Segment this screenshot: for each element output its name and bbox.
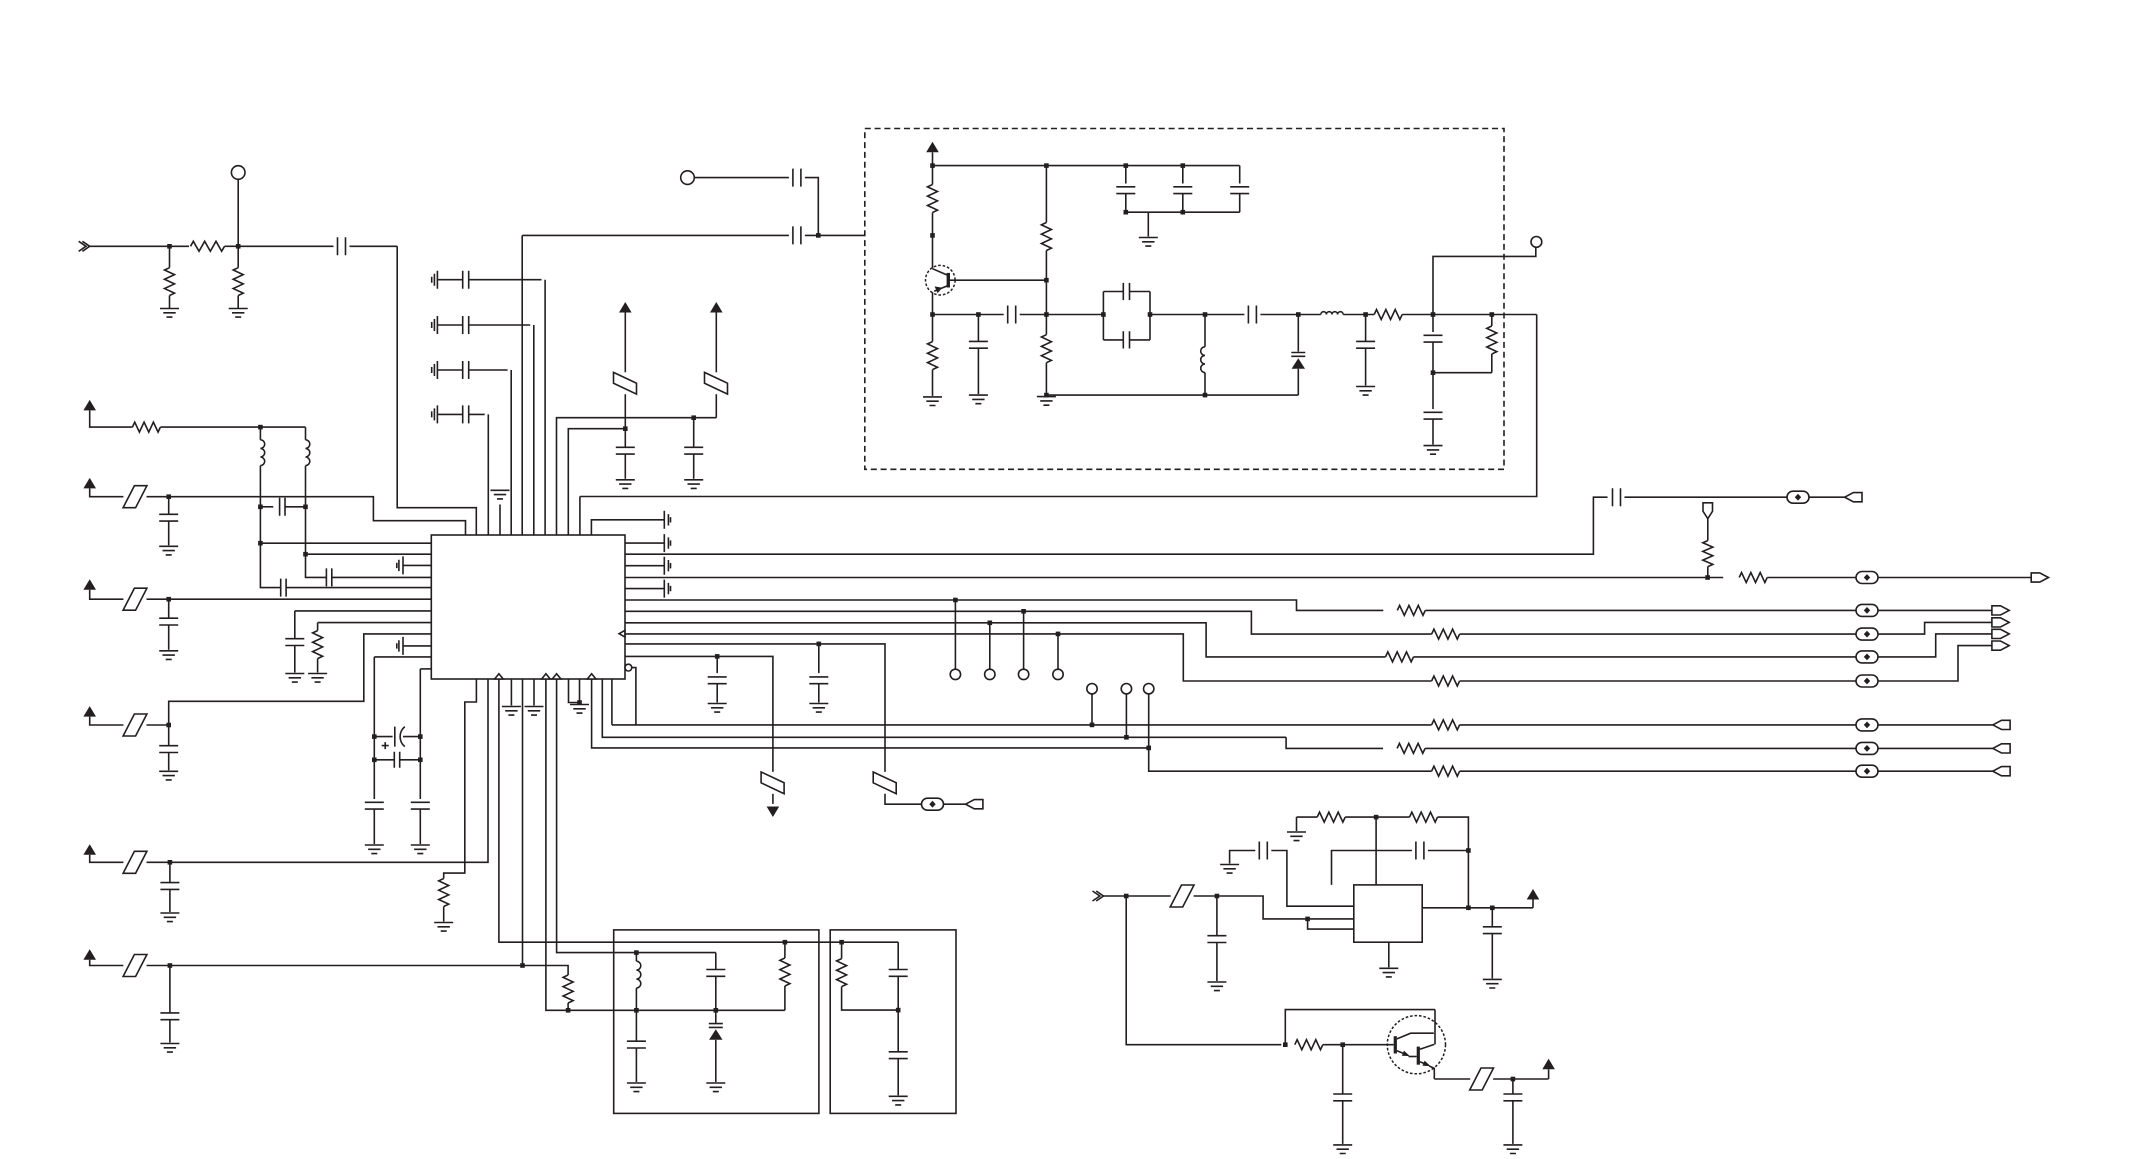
wire [612,724,1432,726]
wire [397,246,476,535]
junction [566,1008,571,1013]
capacitor C29 [1613,488,1621,506]
wire [169,296,171,309]
wire [1467,851,1469,908]
wire [611,679,613,725]
capacitor C18 [397,556,403,574]
junction [634,950,639,955]
wire [90,855,124,863]
inductor L2 [306,440,310,466]
wire [373,737,375,760]
wire [1297,369,1299,395]
resistor R3 [233,268,243,296]
wire [1434,1078,1470,1080]
wire [533,325,535,535]
capacitor C28 [664,580,670,598]
junction [1181,163,1186,168]
wire [90,590,124,599]
wire [373,760,375,799]
wire [632,668,636,725]
junction [1215,894,1220,899]
wire [1239,194,1241,213]
wire [1625,496,1788,498]
ground [627,1083,646,1092]
wire [90,245,170,247]
junction [1340,1042,1345,1047]
junction [988,621,993,626]
wire [1148,694,1150,748]
filter FL6 [123,851,147,873]
capacitor C36 [1230,187,1249,194]
wire [715,953,717,970]
wire [1428,850,1469,852]
resistor R7 [313,631,323,659]
capacitor C21 [374,727,420,750]
testpoint TP3 [950,669,960,679]
diode D2 [709,1024,723,1040]
wire [546,679,785,1010]
wire [694,177,789,179]
wire [1342,1045,1344,1094]
wire [419,809,421,844]
wire [602,679,1286,737]
pin-marker [495,674,504,679]
junction [1705,575,1710,580]
wire [147,598,169,600]
wire [419,669,421,737]
junction [258,505,263,510]
capacitor C2 [793,169,801,187]
ferrite-bead FB8 [1856,719,1878,731]
capacitor C41 [627,1041,646,1048]
resistor R9 [1703,541,1713,567]
junction [1283,1042,1288,1047]
wire [1182,194,1184,213]
resistor R21 [1374,310,1402,320]
resistor R11 [1432,629,1460,639]
wire [260,542,431,544]
ground [1483,979,1502,988]
junction [1124,210,1129,215]
junction [372,758,377,763]
wire [932,152,934,165]
ground [1379,968,1398,977]
wire [693,418,695,448]
junction [783,940,788,945]
wire [90,960,124,966]
wire [1147,212,1149,236]
wire [544,280,546,535]
ferrite-bead FB5 [1856,651,1878,663]
wire [569,679,580,703]
wire [932,370,934,396]
wire [1125,694,1127,737]
wire [168,599,170,618]
wire [90,488,124,496]
wire [1023,611,1025,669]
module X3 [830,930,956,1114]
filter FL8 [873,772,896,794]
testpoint TP2 [681,171,695,185]
wire [932,213,934,236]
wire [285,506,306,508]
wire [499,505,501,536]
resistor R12 [1386,652,1414,662]
connector CN9 [1993,744,2010,753]
wire [1126,895,1171,897]
ground [160,913,179,922]
wire [1125,166,1127,184]
wire [624,394,626,429]
junction [1203,393,1208,398]
wire [1091,694,1093,725]
wire [933,165,1240,167]
wire [715,394,717,418]
power VEE [767,807,780,818]
capacitor C14 [159,618,178,625]
junction [166,494,171,499]
wire [693,454,695,479]
wire [772,794,774,804]
ground [809,704,828,713]
wire [1365,348,1367,385]
wire [625,542,664,544]
junction [816,233,821,238]
capacitor C48 [1483,927,1502,934]
wire [933,314,1004,316]
wire [238,245,333,247]
ferrite-bead FB3 [1856,604,1878,616]
wire [169,246,171,267]
wire [1878,577,2031,579]
wire [1296,817,1298,831]
wire [1878,770,1993,772]
wire [90,410,133,427]
capacitor C32 [1008,306,1016,324]
testpoint TP1 [231,166,245,180]
wire [1125,194,1127,213]
connector J1 [79,241,90,251]
resistor R20 [1041,335,1051,363]
wire [1239,166,1241,184]
filter FL10 [1170,885,1194,907]
wire [169,1020,171,1043]
capacitor C30 [809,677,828,684]
junction [976,312,981,317]
wire [169,598,432,600]
wire [784,986,786,1010]
wire [1512,1101,1514,1144]
ground [1220,865,1239,874]
ground [159,651,178,660]
inductor L3 [1201,347,1205,373]
resistor R2 [191,241,225,251]
wire [557,679,716,953]
capacitor C12 [326,568,331,586]
wire [625,634,1432,681]
ground [229,309,248,318]
wire [948,279,1046,281]
pin-marker [587,674,596,679]
junction [930,163,935,168]
wire [1365,315,1367,342]
capacitor C26 [664,534,670,552]
wire [944,803,966,805]
capacitor C13 [159,514,178,521]
wire [1432,419,1434,445]
testpoint TP5 [985,669,995,679]
capacitor C5 [432,316,531,334]
junction [258,541,263,546]
junction [1148,312,1153,317]
ground [1424,446,1443,455]
wire [318,622,432,624]
wire [286,587,431,589]
ground [923,397,942,406]
ground [434,923,453,932]
wire [305,466,307,507]
junction [1305,917,1310,922]
wire [1432,342,1434,373]
wire [1020,314,1104,316]
connector CN6 [1992,641,2009,650]
capacitor C39 [1424,335,1443,342]
wire [168,625,170,650]
wire [1438,817,1469,850]
resistor R15 [1397,743,1425,753]
wire [1182,166,1184,184]
wire [818,684,820,703]
testpoint TP8 [1121,684,1131,694]
wire [169,966,171,1013]
wire [1045,166,1047,223]
wire [716,656,718,673]
pin-marker [542,674,551,679]
junction [1044,278,1049,283]
capacitor C40 [1424,412,1443,419]
capacitor C38 [1356,341,1375,348]
wire [1460,724,1856,726]
capacitor C23 [365,802,384,809]
wire [317,659,319,673]
junction [1181,210,1186,215]
wire [294,611,296,639]
wire [1432,315,1434,333]
power VCC [1542,1059,1555,1070]
wire [1532,900,1534,908]
junction [714,1008,719,1013]
ferrite-bead FB4 [1856,628,1878,640]
capacitor C6 [432,361,508,379]
filter FL5 [123,714,147,736]
resistor R25 [1317,812,1345,822]
junction [896,1008,901,1013]
power VCC [710,302,723,313]
wire [168,753,170,771]
wire [932,315,934,342]
wire [1767,577,1856,579]
connector CN8 [1993,720,2010,729]
resistor R19 [1041,223,1051,251]
junction [930,233,935,238]
wire [170,679,488,862]
junction [691,415,696,420]
junction [520,963,525,968]
capacitor C8 [616,447,635,454]
junction [1490,906,1495,911]
wire [306,554,327,577]
wire [1045,363,1047,395]
wire [1388,942,1390,967]
junction [577,700,582,705]
wire [932,292,934,314]
wire [715,1040,717,1082]
capacitor C7 [432,405,485,423]
connector CN7 [966,800,983,809]
wire [635,953,637,962]
wire [954,600,956,669]
wire [332,576,432,578]
wire [715,313,717,373]
wire [624,313,626,373]
junction [930,312,935,317]
wire [374,759,394,761]
junction [166,597,171,602]
capacitor C22 [394,752,399,768]
capacitor C4 [432,271,542,289]
wire [1491,354,1493,373]
pin-bubble [625,664,632,671]
wire [237,179,239,246]
power VCC [83,706,96,717]
wire [400,759,421,761]
wire [1460,680,1856,682]
wire [1425,609,1856,611]
wire [1512,1079,1514,1094]
wire [625,611,1432,634]
wire [1548,1069,1550,1079]
capacitor C33 [969,341,988,348]
filter FL1 [614,372,637,394]
wire [1345,816,1409,818]
ic U2 [1354,885,1422,942]
wire [1433,372,1492,374]
resistor R1 [165,268,175,296]
wire [977,315,979,342]
wire [403,564,431,566]
resistor R23 [780,958,790,986]
wire [169,889,171,912]
ferrite-bead FB9 [1856,742,1878,754]
wire [1271,851,1354,907]
capacitor C35 [1173,187,1192,194]
wire [169,497,466,535]
wire [168,497,170,515]
inductor L5 [636,961,640,988]
wire [168,725,170,746]
ferrite-bead FB10 [1856,765,1878,777]
wire [841,942,843,958]
junction [166,723,171,728]
inductor L1 [260,440,264,466]
junction [167,244,172,249]
wire [259,507,261,543]
wire [523,966,569,976]
ground [1356,387,1375,396]
wire [625,600,1383,610]
wire [557,418,717,535]
wire [805,178,818,236]
capacitor C42 [706,970,725,977]
ground [308,674,327,683]
wire [259,427,261,440]
wire [1343,314,1374,316]
junction [1511,1077,1516,1082]
junction [168,860,173,865]
wire [260,506,273,508]
wire [147,496,169,498]
wire [160,426,305,428]
junction [1124,163,1129,168]
testpoint TP7 [1087,684,1097,694]
filter FL4 [123,588,147,610]
wire [373,809,375,844]
junction [634,1008,639,1013]
power VCC [83,844,96,855]
wire [625,623,1386,657]
ground [1333,1145,1352,1154]
junction [1044,163,1049,168]
wire [510,679,512,706]
junction [1124,735,1129,740]
ground [160,309,179,318]
wire [1493,1078,1549,1080]
connector CN3 [1992,606,2009,615]
diode D1 [1291,353,1305,369]
junction [258,425,263,430]
wire [1414,656,1857,658]
junction [839,940,844,945]
junction [418,758,423,763]
wire [419,737,421,760]
junction [1490,312,1495,317]
wire [625,644,885,772]
wire [1460,770,1856,772]
module X2 [614,930,819,1114]
wire [522,679,524,966]
wire [1150,314,1244,316]
capacitor C15 [159,746,178,753]
ic U1 [431,535,625,679]
capacitor C45 [1207,936,1226,943]
filter FL11 [1470,1068,1494,1090]
filter FL9 [761,772,784,794]
junction [303,505,308,510]
testpoint TP9 [1144,684,1154,694]
wire [1332,851,1412,885]
ferrite-bead FB2 [1856,572,1878,584]
pin-arrow [619,630,625,637]
resistor R22 [1487,326,1497,354]
capacitor C46 [1259,842,1267,860]
ground [616,480,635,489]
wire [147,724,169,726]
module VCO [865,129,1504,470]
power VCC [83,949,96,960]
wire [1297,816,1318,818]
wire [1126,896,1281,1045]
wire [420,668,431,670]
